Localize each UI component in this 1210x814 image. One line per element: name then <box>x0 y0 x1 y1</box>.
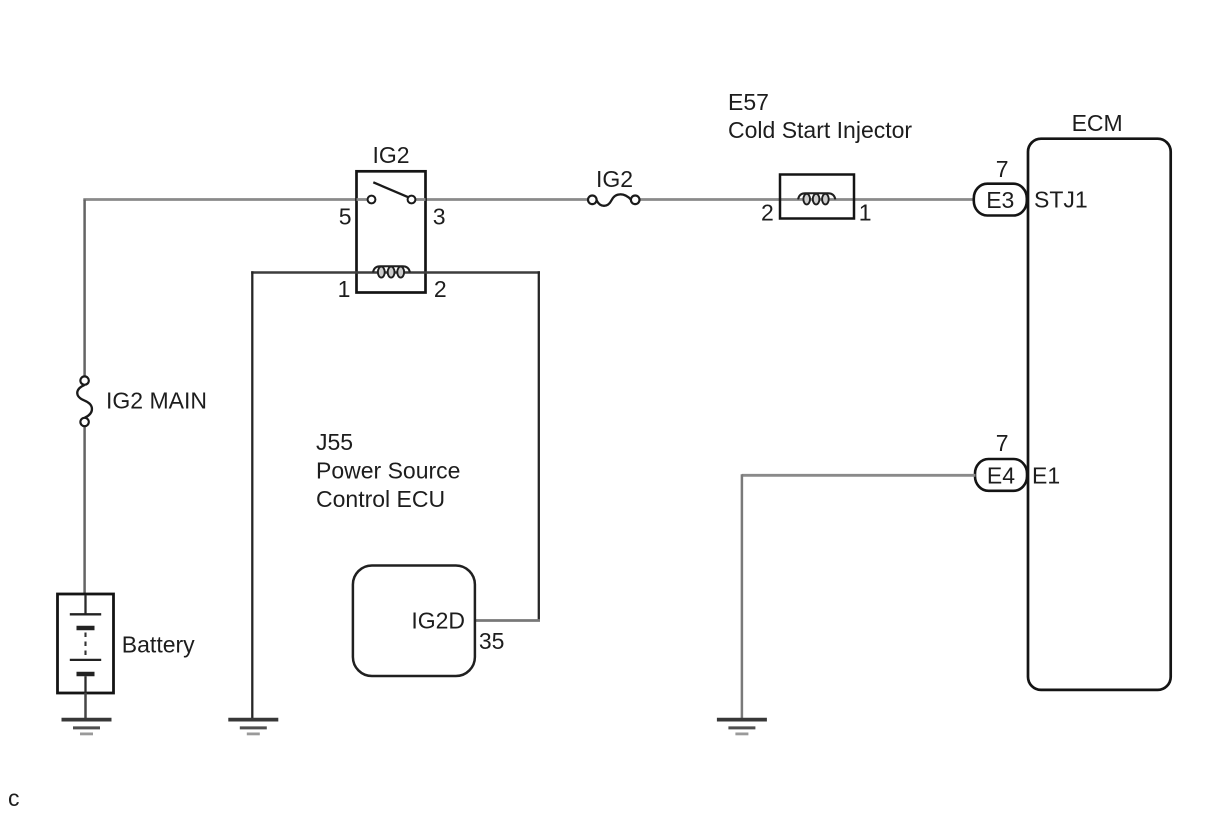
pin 3 <box>433 204 446 230</box>
fuse IG2 MAIN <box>77 376 92 426</box>
ground: relay pin 1 <box>228 720 278 734</box>
pin 2 (injector) <box>761 200 774 226</box>
svg-text:c: c <box>8 785 20 811</box>
svg-text:2: 2 <box>434 276 447 302</box>
pin 35 <box>479 628 505 654</box>
svg-text:3: 3 <box>433 204 446 230</box>
ground: battery <box>62 720 112 734</box>
wire: left vertical from main wire to fuse IG2 MAIN <box>83 200 86 377</box>
wire: ground to ECM E4 <box>742 474 976 719</box>
wire: battery negative to ground <box>84 693 87 720</box>
svg-text:E3: E3 <box>986 187 1014 213</box>
injector E57 <box>780 175 854 219</box>
svg-text:E4: E4 <box>987 462 1015 488</box>
wire: relay pin 3 to fuse IG2 (horizontal) <box>415 198 588 201</box>
svg-text:7: 7 <box>996 430 1009 456</box>
ground: E1 <box>717 720 767 734</box>
wire: battery to relay pin 5 (horizontal, y=199.5) <box>83 198 357 201</box>
svg-text:STJ1: STJ1 <box>1034 187 1088 213</box>
svg-text:IG2 MAIN: IG2 MAIN <box>106 387 207 413</box>
pin 1 <box>338 276 351 302</box>
pin 1 (injector) <box>859 200 872 226</box>
svg-text:IG2: IG2 <box>373 142 410 168</box>
svg-text:35: 35 <box>479 628 505 654</box>
svg-text:IG2D: IG2D <box>411 607 465 633</box>
pin 7 (E4) <box>996 430 1009 456</box>
battery B1 <box>58 594 114 693</box>
label IG2 (relay) <box>373 142 410 168</box>
connector E3 <box>974 184 1027 216</box>
label ECM <box>1072 110 1123 136</box>
ECM box <box>1028 139 1171 690</box>
wire: relay pin 2 to IG2D terminal <box>426 271 541 620</box>
label E57 Cold Start Injector <box>728 89 912 143</box>
pin 5 <box>339 204 352 230</box>
note c <box>8 785 20 811</box>
pin 2 <box>434 276 447 302</box>
svg-text:Cold Start Injector: Cold Start Injector <box>728 117 912 143</box>
wire: fuse IG2 MAIN to battery top <box>83 426 86 595</box>
connector E4 <box>975 459 1027 491</box>
svg-text:E57: E57 <box>728 89 769 115</box>
node E1 <box>1032 463 1060 489</box>
node STJ1 <box>1034 187 1088 213</box>
svg-text:1: 1 <box>859 200 872 226</box>
svg-text:J55: J55 <box>316 429 353 455</box>
svg-text:E1: E1 <box>1032 463 1060 489</box>
terminal box IG2D of J55 <box>353 566 475 677</box>
label J55 Power Source Control ECU <box>316 429 460 512</box>
label IG2 (fuse) <box>596 166 633 192</box>
label Battery <box>122 632 195 658</box>
svg-text:Battery: Battery <box>122 632 195 658</box>
svg-text:ECM: ECM <box>1072 110 1123 136</box>
svg-text:Control ECU: Control ECU <box>316 486 445 512</box>
svg-text:5: 5 <box>339 204 352 230</box>
relay IG2 <box>357 171 426 292</box>
fuse IG2 <box>588 194 640 205</box>
pin 7 (E3) <box>996 156 1009 182</box>
svg-text:7: 7 <box>996 156 1009 182</box>
wire: fuse IG2 to injector to ECM E3 (horizontal) <box>639 198 974 201</box>
svg-text:Power Source: Power Source <box>316 458 460 484</box>
svg-text:1: 1 <box>338 276 351 302</box>
svg-text:2: 2 <box>761 200 774 226</box>
svg-text:IG2: IG2 <box>596 166 633 192</box>
wire: relay pin 1 to ground (horizontal then vertical) <box>251 271 356 719</box>
label IG2 MAIN <box>106 387 207 413</box>
